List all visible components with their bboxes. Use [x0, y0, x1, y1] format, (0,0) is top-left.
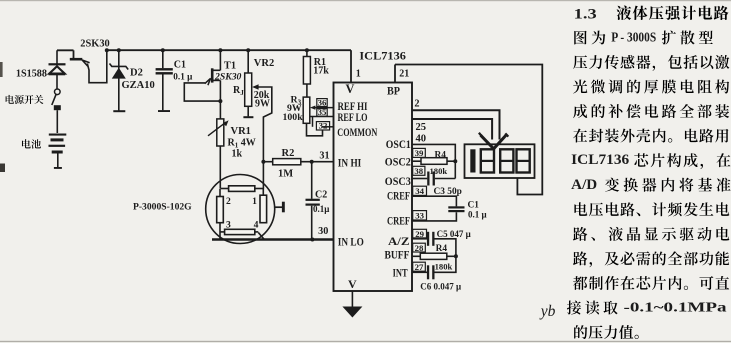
LCD digit 8 c: [517, 149, 530, 172]
junction dot FET1-rail: [105, 48, 109, 52]
text line5: [573, 104, 587, 118]
bridge resistor right: [260, 195, 267, 223]
pin 35 box: [317, 109, 327, 117]
svg-text:38: 38: [414, 166, 423, 176]
wire pin36 REF HI wiper: [313, 107, 334, 109]
potentiometer VR1 1k: [217, 119, 224, 146]
svg-text:1: 1: [252, 196, 257, 207]
junction dot R1-rail: [305, 48, 309, 52]
wire left supply rail: [57, 49, 74, 51]
scan artifact top hairline: [0, 0, 731, 1]
svg-text:40: 40: [416, 134, 427, 145]
svg-text:36: 36: [318, 98, 327, 108]
switch S1 power switch: [55, 89, 61, 95]
svg-text:2: 2: [226, 196, 231, 207]
pin 28 box: [413, 243, 426, 252]
svg-text:2SK30: 2SK30: [214, 71, 242, 82]
pin 21 stub: [394, 65, 396, 83]
junction dot C2 top: [310, 160, 314, 164]
text line14: [574, 325, 587, 339]
text line6: [573, 129, 587, 143]
wire pin 40: [412, 144, 455, 161]
text line10: [573, 227, 587, 241]
capacitor C6 0.047u: [412, 271, 427, 273]
svg-text:R2: R2: [282, 148, 295, 159]
svg-text:100k: 100k: [283, 112, 304, 123]
svg-text:35: 35: [318, 107, 327, 117]
svg-text:2: 2: [414, 99, 419, 110]
junction dot T1-rail: [218, 48, 222, 52]
svg-text:34: 34: [415, 186, 424, 196]
capacitor C1 0.1u ref: [412, 196, 456, 206]
node 3 bottom-left wires: [219, 223, 221, 240]
svg-text:25: 25: [416, 122, 427, 133]
svg-text:2SK30: 2SK30: [80, 39, 109, 50]
junction dot C2 bottom: [310, 238, 314, 242]
svg-text:V: V: [346, 82, 355, 96]
resistor R4 int 180k: [412, 255, 420, 257]
svg-text:BUFF: BUFF: [385, 249, 410, 261]
svg-text:29: 29: [415, 229, 424, 239]
junction dot int node: [454, 254, 458, 258]
svg-text:OSC1: OSC1: [386, 139, 411, 151]
junction dot D2-rail: [117, 48, 121, 52]
op-amp U1 ICL7136 body: [334, 83, 413, 292]
svg-text:R4: R4: [436, 244, 448, 254]
svg-text:21: 21: [399, 69, 409, 80]
svg-text:A/D: A/D: [571, 177, 597, 193]
pin 1 stub: [350, 50, 352, 82]
svg-text:COMMON: COMMON: [337, 127, 378, 139]
svg-text:-0.1~0.1MPa: -0.1~0.1MPa: [624, 300, 727, 315]
LCD digit 1: [470, 149, 475, 172]
pressure port stub: [275, 206, 283, 208]
sensor P-3000S circle: [206, 175, 275, 244]
junction dot R2-sensor: [261, 160, 265, 164]
node 1 top-right wires: [262, 162, 264, 189]
svg-text:180k: 180k: [435, 262, 453, 272]
svg-text:3: 3: [226, 219, 231, 230]
svg-text:28: 28: [415, 243, 424, 253]
svg-text:C6 0.047 μ: C6 0.047 μ: [420, 282, 461, 292]
svg-text:17k: 17k: [313, 66, 329, 77]
svg-text:1S1588: 1S1588: [16, 69, 47, 80]
LCD digit 8 a: [481, 149, 494, 172]
svg-text:CREF: CREF: [387, 190, 410, 202]
transistor T1 2SK30: [219, 50, 221, 70]
junction dot C1-rail: [161, 48, 165, 52]
junction dot osc node: [453, 159, 457, 163]
svg-text:9W: 9W: [255, 99, 270, 110]
wire pin 25 segment: [412, 119, 492, 140]
junction dot T1 gate-source: [218, 99, 222, 103]
pin 33 box: [413, 211, 427, 220]
svg-text:ICL7136: ICL7136: [359, 48, 406, 62]
text line3: [573, 55, 587, 69]
svg-text:P - 3000S: P - 3000S: [611, 30, 656, 45]
svg-text:T1: T1: [224, 61, 236, 72]
svg-text:OSC3: OSC3: [385, 176, 411, 188]
wire osc node down: [454, 161, 456, 178]
potentiometer VR2 20k 9W: [247, 50, 249, 73]
wire IN LO bottom: [212, 238, 334, 240]
svg-text:P-3000S-102G: P-3000S-102G: [133, 202, 192, 213]
svg-text:CREF: CREF: [387, 215, 410, 227]
capacitor C5 0.047u: [412, 238, 427, 240]
bridge resistor bottom: [225, 229, 255, 234]
pin 38 box: [413, 166, 425, 175]
svg-text:4: 4: [254, 219, 259, 230]
svg-text:30: 30: [318, 226, 328, 237]
wire pin35 REF LO: [310, 116, 334, 118]
pin 39 box: [413, 148, 426, 157]
pin 29 box: [413, 229, 427, 238]
svg-text:REF HI: REF HI: [338, 101, 368, 113]
label 电池: [22, 139, 31, 148]
svg-text:IN HI: IN HI: [338, 157, 362, 169]
svg-text:BP: BP: [387, 84, 400, 98]
bridge resistor left: [217, 197, 224, 223]
bridge resistor top: [229, 186, 255, 192]
svg-text:VR2: VR2: [254, 58, 274, 69]
LCD display box: [465, 144, 535, 178]
text line9: [574, 202, 587, 216]
svg-text:GZA10: GZA10: [122, 80, 155, 91]
resistor R4 osc 180k: [412, 160, 421, 162]
svg-text:A/Z: A/Z: [388, 236, 410, 248]
pin 27 box: [413, 262, 426, 271]
scan artifact bottom hairline: [0, 341, 731, 342]
transistor 2SK30 first JFET: [73, 50, 75, 58]
svg-text:V: V: [348, 277, 357, 291]
text line2: [574, 31, 587, 45]
pin 34 box: [413, 186, 427, 195]
wire pin 22 segment: [412, 110, 500, 139]
svg-text:39: 39: [415, 148, 424, 158]
node 4 bottom-right wires: [255, 231, 258, 233]
capacitor C1 0.1u (supply): [162, 50, 164, 68]
svg-text:VR1: VR1: [231, 126, 251, 137]
svg-text:R4: R4: [435, 151, 447, 161]
svg-text:1.3: 1.3: [574, 6, 597, 22]
pin 36 box: [317, 99, 327, 107]
text line12: [573, 276, 587, 290]
wire BP pin21 to display backplane: [395, 65, 542, 195]
svg-text:REF LO: REF LO: [338, 112, 368, 124]
svg-text:C2: C2: [315, 189, 327, 200]
svg-text:27: 27: [415, 262, 424, 272]
ground below chip: [351, 291, 353, 307]
svg-text:180k: 180k: [430, 166, 448, 176]
svg-text:1M: 1M: [278, 169, 293, 180]
svg-text:OSC2: OSC2: [385, 156, 411, 168]
svg-text:0.1 μ: 0.1 μ: [173, 72, 193, 82]
capacitor C2 0.1u: [311, 162, 313, 199]
scan artifact left tick upper: [0, 62, 3, 77]
potentiometer R3 100k 9W: [303, 97, 310, 123]
wire pin32 COMMON: [323, 126, 334, 128]
capacitor C3 50p: [412, 178, 427, 180]
svg-text:33: 33: [415, 211, 424, 221]
svg-text:31: 31: [319, 150, 329, 161]
node 2 top-left wires: [220, 188, 228, 190]
svg-text:C1: C1: [174, 60, 186, 71]
battery B1: [49, 134, 67, 136]
svg-text:ICL7136: ICL7136: [571, 152, 629, 168]
zener diode D2 GZA10: [118, 50, 120, 110]
svg-text:1: 1: [356, 68, 361, 79]
scan artifact left tick lower: [0, 164, 5, 173]
LCD digit 8 b: [500, 149, 513, 172]
text line4: [573, 80, 587, 94]
svg-text:32: 32: [319, 121, 328, 131]
svg-text:D2: D2: [130, 68, 143, 79]
junction dot VR2-rail: [246, 48, 250, 52]
svg-text:IN LO: IN LO: [338, 236, 364, 248]
wire top supply rail: [107, 49, 351, 51]
resistor R2 1M: [263, 161, 272, 163]
label 电源开关: [6, 95, 14, 104]
diode D1 1S1588: [56, 50, 58, 64]
svg-text:C5 047 μ: C5 047 μ: [437, 229, 471, 239]
svg-text:INT: INT: [393, 268, 408, 280]
pin 32 box: [316, 122, 329, 130]
arrow into display: [481, 135, 507, 149]
svg-text:0.1 μ: 0.1 μ: [468, 210, 487, 220]
svg-text:0.1μ: 0.1μ: [313, 204, 329, 214]
svg-text:yb: yb: [539, 303, 556, 320]
svg-text:1k: 1k: [232, 149, 243, 160]
resistor R1 17k: [303, 57, 310, 85]
text line11: [573, 251, 587, 265]
